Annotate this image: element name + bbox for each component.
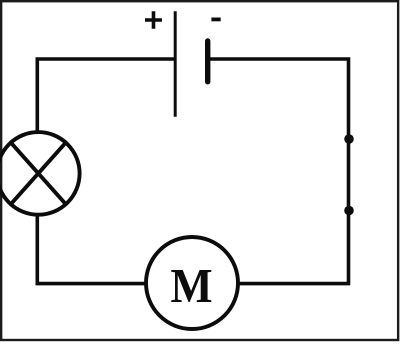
label - (battery negative) bbox=[211, 17, 220, 21]
svg-text:M: M bbox=[170, 259, 212, 313]
wire from battery positive plate to top-left corner, down to lamp bbox=[37, 59, 176, 132]
motor M1 (circle) bbox=[146, 237, 238, 329]
wire from lamp bottom to bottom-left corner, to motor bbox=[37, 215, 145, 284]
wire from battery negative plate to top-right corner, down right side, to motor bbox=[208, 59, 349, 284]
lamp L1 (circle with X cross) bbox=[0, 132, 80, 215]
battery B1 positive plate (long thin line) bbox=[174, 11, 177, 117]
battery B1 negative plate (short thick line) bbox=[205, 41, 210, 82]
switch S1 contact dot (bottom) bbox=[344, 206, 354, 216]
switch S1 contact dot (top) bbox=[344, 134, 354, 144]
label + (battery positive) bbox=[145, 11, 162, 29]
